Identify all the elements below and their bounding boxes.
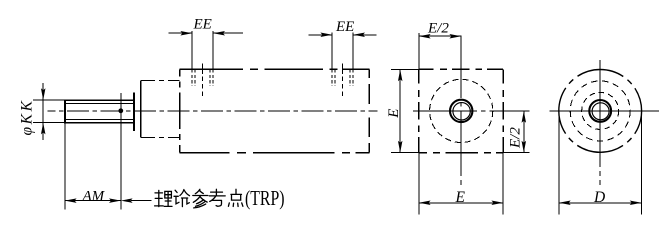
E/2 right arrow bottom <box>522 141 527 153</box>
D extension line right <box>641 115 643 215</box>
right EE arrow left <box>320 33 332 38</box>
square view vertical centre line <box>460 36 462 185</box>
label text 理 (li) <box>155 190 172 206</box>
theoretical reference point dot <box>118 108 123 113</box>
square view horizontal centre line <box>413 110 529 112</box>
square view bolt circle (dashed) <box>430 79 493 142</box>
phi-KK bottom arrow <box>41 123 46 135</box>
square flange outline right edge <box>502 69 504 152</box>
piston rod bottom outline <box>65 122 134 124</box>
E left arrow top <box>398 69 403 81</box>
square view rod boss outer circle <box>450 100 472 122</box>
label text 参 (can) <box>193 189 208 208</box>
E bottom extension line right <box>502 153 504 215</box>
E/2 right dimension line <box>523 111 525 153</box>
left port hidden centre line <box>202 69 204 96</box>
square flange outline top edge <box>419 68 503 70</box>
cylinder body top edge <box>180 68 370 70</box>
svg-text:EE: EE <box>193 17 212 33</box>
round view horizontal centre line <box>550 110 660 112</box>
right port hidden thread major lines <box>332 69 353 86</box>
svg-text:EE: EE <box>335 19 354 35</box>
left port hidden thread minor lines <box>195 69 210 86</box>
E/2 top arrow right <box>449 34 461 39</box>
E left arrow bottom <box>398 141 403 153</box>
E left dimension line <box>399 69 401 152</box>
svg-text:φKK: φKK <box>19 98 36 135</box>
round view vertical centre line <box>599 60 601 185</box>
piston rod phi-KK dimension extension line top <box>33 99 65 101</box>
round view rod thread inner circle <box>592 103 609 120</box>
right port hidden thread minor lines <box>335 69 350 86</box>
svg-text:D: D <box>593 189 605 206</box>
phantom block bottom edge <box>141 137 180 139</box>
piston rod phi-KK dimension extension line bottom <box>33 122 65 124</box>
AM arrow left <box>65 198 77 203</box>
AM arrow right <box>109 198 121 203</box>
svg-text:AM: AM <box>82 188 106 204</box>
label text 考 (kao) <box>209 189 225 206</box>
round view bolt circle (dashed) <box>570 81 630 141</box>
E bottom arrow left <box>419 201 431 206</box>
cylinder body right edge <box>368 69 370 152</box>
right EE dimension line right segment <box>353 34 376 36</box>
right port left edge / EE extension line <box>331 33 333 70</box>
E bottom arrow right <box>491 201 503 206</box>
piston rod thread minor line top <box>66 102 134 104</box>
svg-text:E: E <box>386 109 402 119</box>
round view inner dashed circle <box>582 92 619 129</box>
left port right edge / EE extension line <box>212 31 214 69</box>
right EE dimension line left segment <box>309 34 333 36</box>
svg-text:E: E <box>455 189 466 206</box>
E bottom dimension line <box>419 202 503 204</box>
phi-KK top arrow <box>41 88 46 100</box>
left EE arrow left <box>180 31 192 36</box>
square view rod thread inner circle <box>453 103 470 120</box>
cylinder centre line <box>48 110 378 112</box>
left port hidden thread major lines <box>192 69 213 86</box>
TRP leader line <box>131 200 152 202</box>
cylinder body bottom edge <box>180 152 370 154</box>
rod collar face <box>133 92 135 131</box>
AM extension line right through TRP <box>120 93 122 210</box>
svg-text:E/2: E/2 <box>508 127 524 149</box>
label text 点 (dian) <box>228 189 243 206</box>
right port hidden centre line <box>342 69 344 96</box>
AM dimension line <box>65 200 121 202</box>
square flange outline left edge <box>418 69 420 152</box>
round view body outer circle (chain) <box>559 70 642 153</box>
left EE arrow right <box>213 31 225 36</box>
E/2 top extension line (square left edge extended) <box>418 33 420 69</box>
round view rod boss outer circle <box>589 100 611 122</box>
left port left edge / EE extension line <box>191 31 193 69</box>
right port centre tick <box>342 64 344 70</box>
svg-text:E/2: E/2 <box>427 21 449 37</box>
mounting collar left face <box>140 81 142 138</box>
TRP leader arrow <box>121 198 133 203</box>
phi-KK dimension line <box>42 83 44 140</box>
E bottom extension line left <box>418 153 420 215</box>
square flange outline bottom edge <box>419 152 503 154</box>
left EE dimension line right segment <box>213 32 243 34</box>
D arrow left <box>559 201 571 206</box>
E left dimension extension line top <box>391 68 419 70</box>
E/2 right arrow top <box>522 111 527 123</box>
E/2 top arrow left <box>419 34 431 39</box>
label text 论 (lun) <box>174 190 190 207</box>
piston rod thread minor line bottom <box>66 118 134 120</box>
AM extension line left (rod end face extended) <box>64 123 66 210</box>
D arrow right <box>630 201 642 206</box>
left port centre tick <box>202 64 204 70</box>
E/2 top dimension line <box>419 35 461 37</box>
piston rod end face <box>64 99 66 123</box>
cylinder body left edge <box>179 69 181 152</box>
right port right edge / EE extension line <box>352 33 354 70</box>
svg-text:(TRP): (TRP) <box>245 186 285 210</box>
phantom block top edge <box>141 80 180 82</box>
right EE arrow right <box>353 33 365 38</box>
left EE dimension line left segment <box>169 32 193 34</box>
D dimension line <box>559 202 642 204</box>
piston rod top outline <box>65 99 134 101</box>
E/2 right dimension extension (square bottom edge extended) <box>503 152 529 154</box>
E left dimension extension line bottom <box>391 152 419 154</box>
D extension line left <box>558 115 560 215</box>
